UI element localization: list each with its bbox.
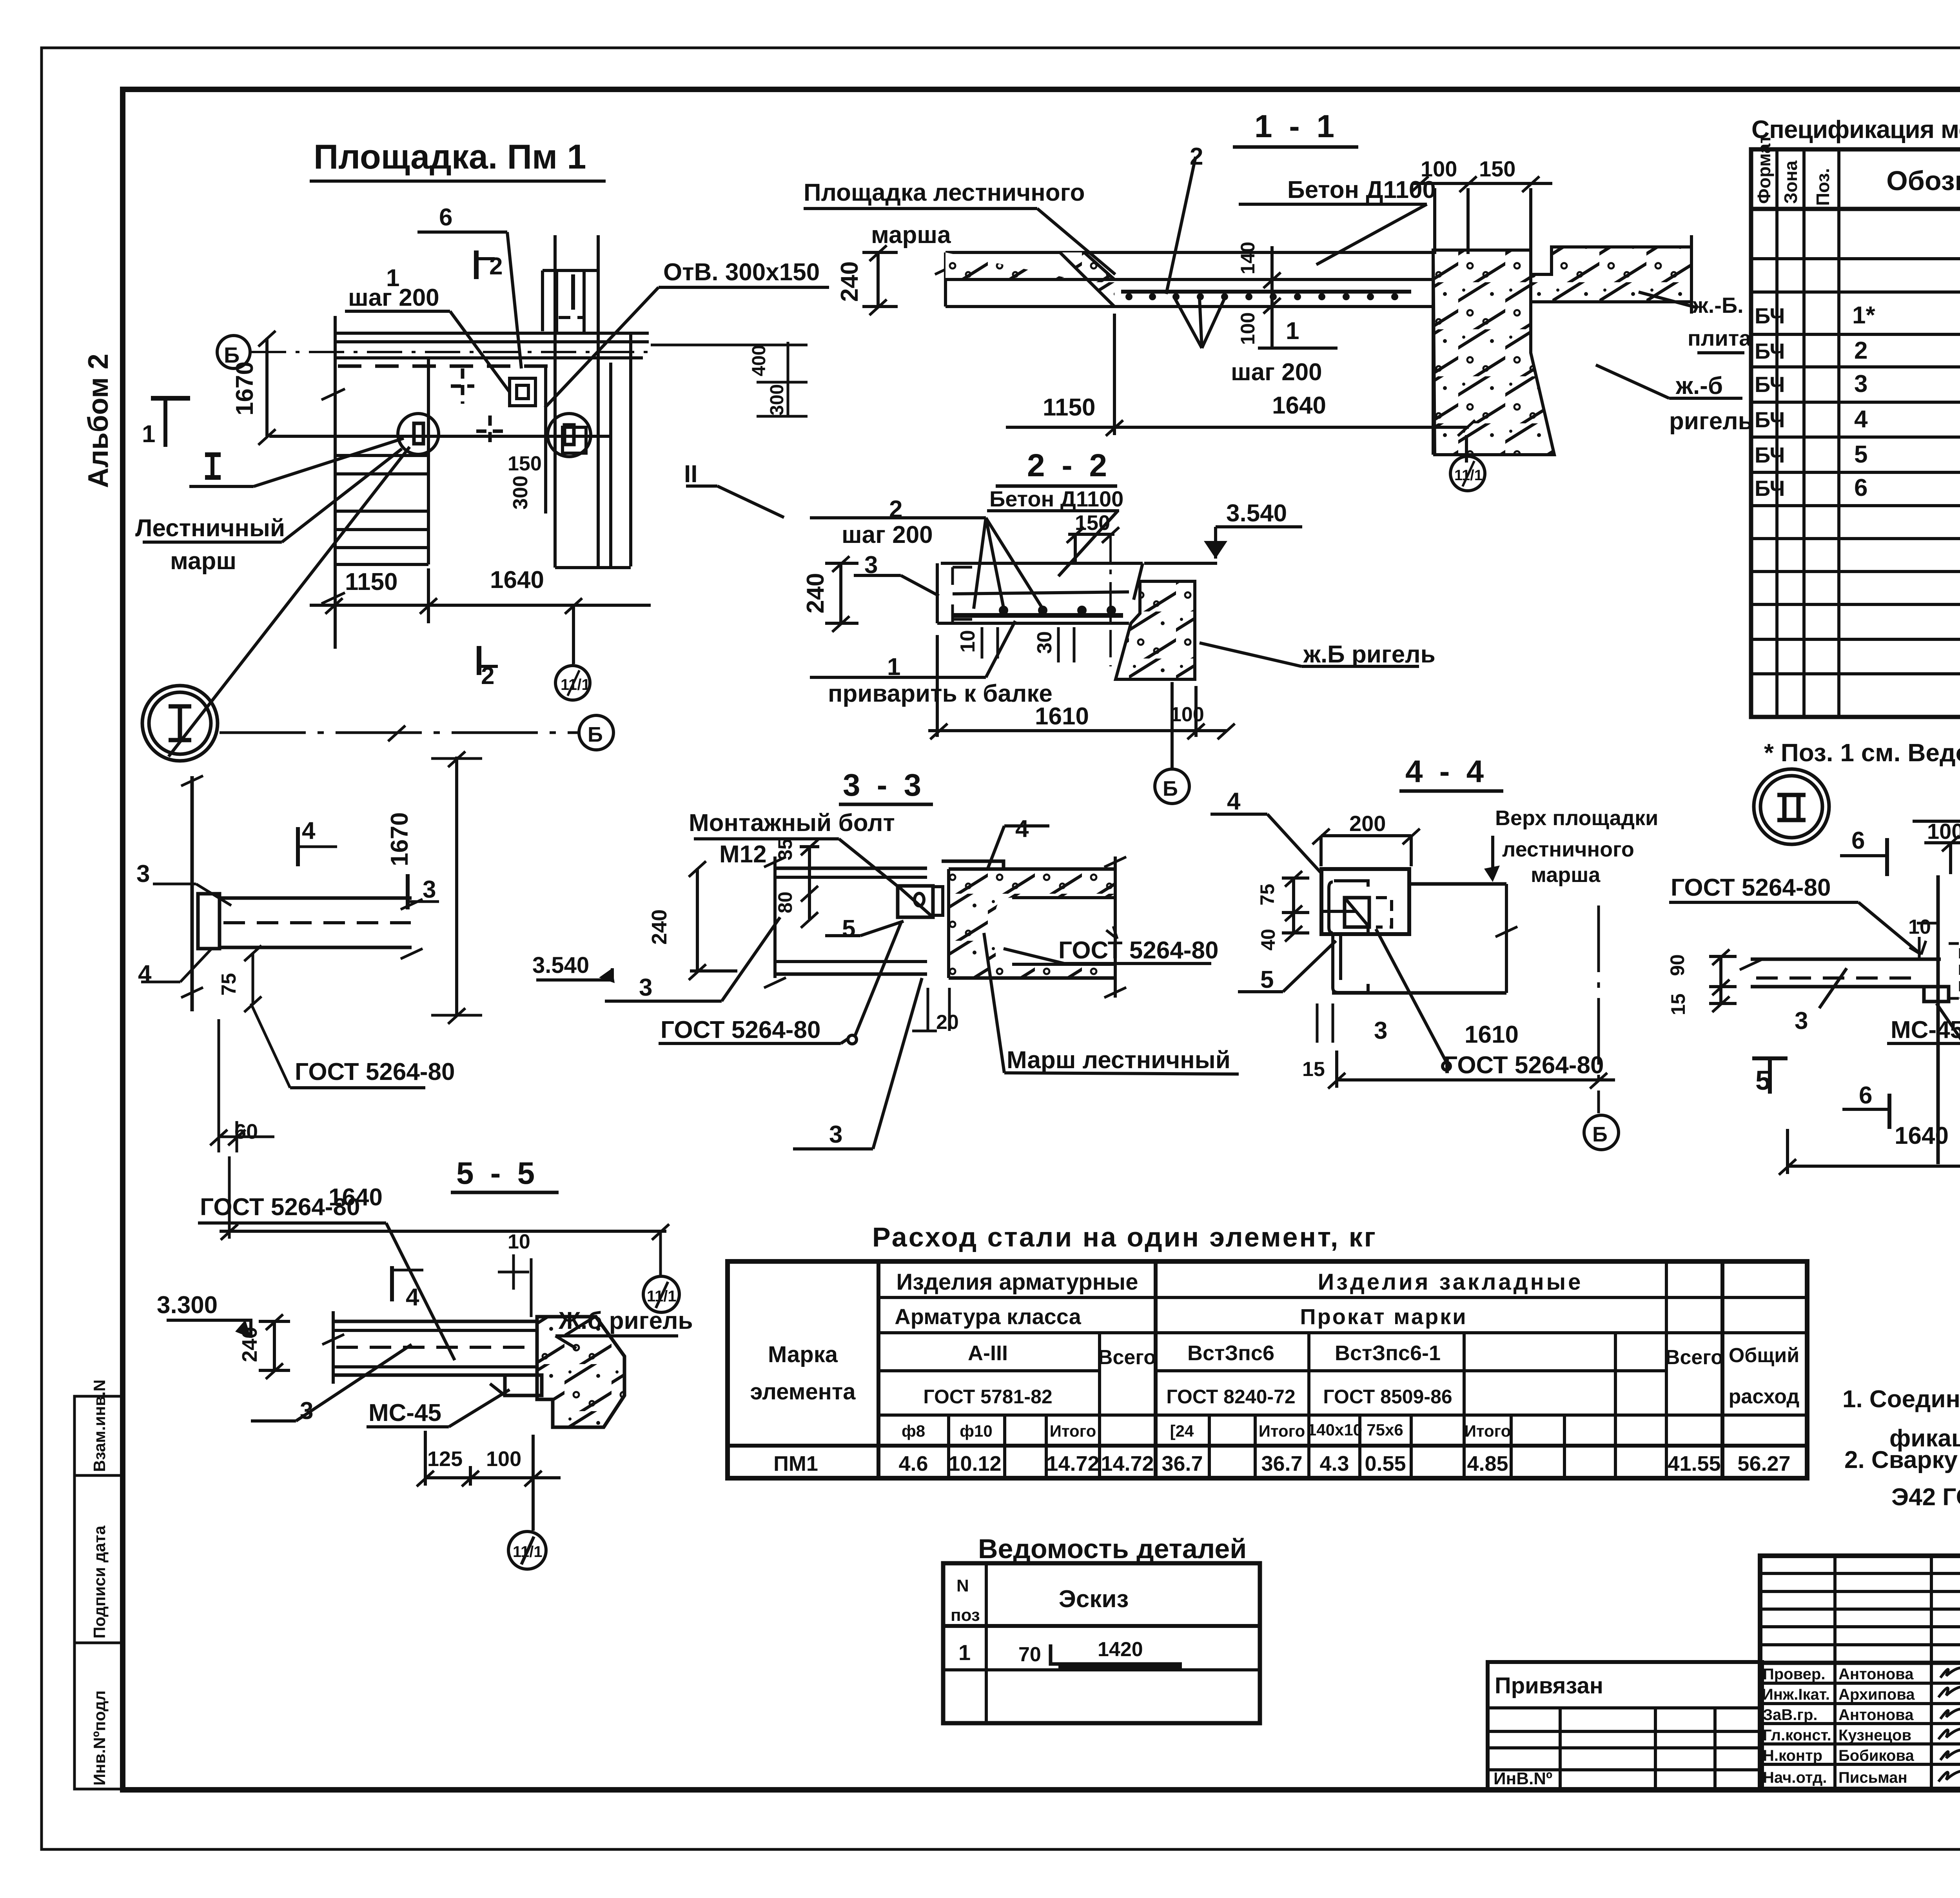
weld circle left	[398, 414, 439, 454]
11/1 circle	[643, 1276, 679, 1312]
svg-text:3: 3	[1854, 370, 1867, 397]
3.540 mark	[1216, 525, 1302, 528]
svg-text:2: 2	[489, 253, 503, 280]
15 dim	[1316, 1003, 1319, 1043]
svg-text:Письман: Письман	[1838, 1769, 1907, 1786]
svg-text:ГОСТ 8240-72: ГОСТ 8240-72	[1166, 1386, 1295, 1408]
right side dims 400/300 ticks	[651, 342, 808, 417]
svg-text:поз: поз	[951, 1606, 980, 1625]
3 leader	[251, 1419, 296, 1423]
svg-text:Бетон Д1100: Бетон Д1100	[989, 486, 1123, 511]
floor plate right	[1531, 247, 1691, 302]
svg-text:240: 240	[648, 909, 671, 945]
slab outline	[946, 251, 1433, 254]
svg-text:Всего: Всего	[1665, 1346, 1723, 1369]
60 dim	[220, 1136, 274, 1138]
flag 4 top	[298, 846, 337, 848]
svg-text:11/1: 11/1	[647, 1288, 677, 1305]
svg-text:300: 300	[509, 475, 532, 510]
svg-text:ПМ1: ПМ1	[773, 1452, 818, 1475]
svg-text:А-III: А-III	[968, 1341, 1008, 1365]
3 leader	[1819, 968, 1847, 1008]
4 label leader	[1004, 824, 1049, 827]
svg-text:4.85: 4.85	[1467, 1452, 1508, 1475]
rebar dots	[1125, 293, 1398, 300]
svg-text:1 - 1: 1 - 1	[1254, 109, 1338, 144]
svg-text:100: 100	[1421, 156, 1457, 181]
90/15 dims left	[1719, 956, 1722, 1003]
svg-text:200: 200	[1349, 811, 1386, 836]
svg-text:Инв.Nºподл: Инв.Nºподл	[90, 1690, 109, 1785]
section 3-3	[659, 768, 1239, 1149]
svg-text:Изделия закладные: Изделия закладные	[1318, 1269, 1583, 1295]
svg-text:1640: 1640	[1272, 392, 1326, 419]
svg-text:Б: Б	[588, 723, 603, 746]
svg-text:Нач.отд.: Нач.отд.	[1763, 1769, 1827, 1786]
riegel block	[537, 1317, 624, 1427]
закладные part verticals	[1208, 1415, 1211, 1478]
riegel block hatched	[1116, 581, 1195, 679]
svg-text:6: 6	[1859, 1082, 1872, 1109]
3-3 left dims (3.540 / 240)	[532, 861, 780, 1001]
ж.б ригель label	[1200, 643, 1419, 666]
svg-text:Обозначение: Обозначение	[1886, 165, 1960, 196]
svg-text:II: II	[684, 461, 697, 488]
dim 1670	[455, 757, 458, 1015]
svg-text:3.300: 3.300	[157, 1292, 218, 1319]
svg-text:10.12: 10.12	[948, 1452, 1001, 1475]
svg-text:1: 1	[958, 1640, 971, 1665]
hatched left band (marsh slab)	[946, 252, 1114, 307]
concrete surface slant	[1134, 563, 1143, 600]
svg-text:* Поз. 1 см. Ведомость детале: * Поз. 1 см. Ведомость деталей	[1764, 739, 1960, 767]
марш slab	[949, 869, 1115, 978]
svg-text:30: 30	[1033, 631, 1056, 654]
svg-text:марша: марша	[871, 221, 951, 249]
svg-text:М12: М12	[719, 841, 767, 868]
svg-text:плита: плита	[1688, 326, 1751, 350]
svg-text:1. Соединительный элемент МС-4: 1. Соединительный элемент МС-45см. специ…	[1842, 1386, 1960, 1413]
svg-text:Прокат марки: Прокат марки	[1300, 1304, 1467, 1329]
верх площадки level line	[1409, 882, 1506, 886]
II mark right	[686, 484, 717, 488]
svg-text:Расход стали на один элемент: Расход стали на один элемент, кг	[872, 1222, 1377, 1252]
bolt block	[898, 886, 933, 917]
svg-text:150: 150	[1479, 156, 1515, 181]
svg-text:41.55: 41.55	[1668, 1452, 1720, 1475]
svg-text:Взам.инв.N: Взам.инв.N	[90, 1379, 109, 1472]
svg-text:БЧ: БЧ	[1755, 407, 1785, 432]
svg-text:Верх площадки: Верх площадки	[1495, 806, 1658, 830]
slab top edge lines	[336, 332, 649, 335]
dim 200	[1321, 834, 1411, 837]
svg-text:Б: Б	[1163, 777, 1178, 800]
section 2-2	[802, 448, 1436, 804]
svg-text:Поз.: Поз.	[1813, 168, 1833, 206]
svg-text:БЧ: БЧ	[1755, 303, 1785, 328]
svg-text:ВстЗпс6-1: ВстЗпс6-1	[1335, 1341, 1441, 1365]
svg-text:ГОСТ 5264-80: ГОСТ 5264-80	[1058, 937, 1218, 964]
svg-text:Привязан: Привязан	[1495, 1673, 1603, 1698]
dim 1610 / 100	[928, 729, 1227, 732]
Ж.б ригель leader	[555, 1334, 678, 1337]
dim 240	[696, 868, 699, 972]
10 dim	[1918, 937, 1921, 959]
svg-text:75: 75	[1256, 884, 1278, 905]
ГОСТ underline + leader	[198, 1221, 386, 1225]
svg-text:Марка: Марка	[768, 1342, 838, 1367]
svg-text:лестничного: лестничного	[1502, 838, 1634, 861]
leader from I circle to weld	[169, 447, 410, 757]
svg-text:100: 100	[486, 1447, 521, 1471]
svg-text:Бобикова: Бобикова	[1838, 1747, 1914, 1764]
svg-text:марш: марш	[170, 548, 236, 575]
svg-text:3.540: 3.540	[532, 953, 589, 978]
svg-text:ф8: ф8	[902, 1422, 925, 1440]
svg-text:ж.-б: ж.-б	[1675, 372, 1723, 399]
channel piece	[198, 894, 220, 949]
svg-text:70: 70	[1018, 1643, 1041, 1666]
svg-text:Общий: Общий	[1729, 1344, 1799, 1367]
dim 1670 vertical	[265, 338, 269, 436]
axis dash-dot to Б	[220, 731, 578, 734]
beam lines	[333, 1320, 537, 1323]
plan view Пм1	[143, 232, 829, 757]
top column I-beam	[543, 269, 598, 272]
labels leaders	[810, 516, 986, 519]
section cut 1 left: T mark	[151, 396, 190, 401]
axis Б dash-dot	[251, 351, 651, 353]
ГОСТ label underline + leader	[1669, 901, 1858, 904]
lower ГОСТ underline	[659, 1042, 841, 1045]
svg-text:2: 2	[1854, 337, 1867, 364]
svg-text:2: 2	[481, 662, 494, 690]
svg-text:Арматура класса: Арматура класса	[895, 1304, 1081, 1329]
svg-text:БЧ: БЧ	[1755, 339, 1785, 363]
svg-text:3: 3	[864, 552, 878, 579]
20 dim below	[927, 988, 929, 1031]
3 label	[605, 1000, 722, 1003]
svg-text:14.72: 14.72	[1101, 1452, 1154, 1475]
svg-text:80: 80	[774, 891, 796, 913]
svg-text:1610: 1610	[1465, 1021, 1519, 1048]
outer column splits	[877, 1261, 880, 1478]
svg-text:2. Сварку производить электрод: 2. Сварку производить электродами типа	[1844, 1446, 1960, 1473]
channel web continuation down	[1331, 934, 1334, 988]
title block	[1488, 1556, 1960, 1789]
svg-text:Всего: Всего	[1098, 1346, 1156, 1369]
svg-text:Изделия арматурные: Изделия арматурные	[897, 1269, 1138, 1295]
inner bolt rect	[1345, 898, 1369, 927]
svg-text:11/1: 11/1	[513, 1543, 543, 1560]
4 label	[1210, 813, 1267, 816]
dims 75/40 at left	[1292, 878, 1295, 933]
flag 4 bottom	[390, 1266, 394, 1301]
dims 125/100	[425, 1476, 561, 1479]
svg-text:4 - 4: 4 - 4	[1405, 754, 1488, 789]
svg-text:1: 1	[887, 653, 900, 680]
end plate МС-45	[1924, 987, 1949, 1002]
svg-text:5: 5	[842, 915, 855, 942]
left grid verticals	[1833, 1556, 1837, 1789]
svg-text:10: 10	[1908, 916, 1931, 938]
line down to 11/1 circle	[1465, 455, 1468, 457]
svg-text:БЧ: БЧ	[1755, 443, 1785, 467]
dim 240	[839, 563, 842, 623]
svg-text:100: 100	[1927, 819, 1960, 844]
svg-text:ВстЗпс6: ВстЗпс6	[1187, 1341, 1274, 1365]
row lines	[1751, 257, 1960, 260]
svg-text:10: 10	[956, 630, 979, 653]
svg-text:Провер.: Провер.	[1763, 1666, 1825, 1683]
left edge	[334, 316, 337, 649]
svg-text:11/1: 11/1	[561, 676, 590, 693]
svg-text:ГОСТ 5264-80: ГОСТ 5264-80	[200, 1194, 360, 1221]
svg-text:240: 240	[836, 261, 863, 302]
svg-text:1150: 1150	[1043, 394, 1096, 421]
6 flag top	[1840, 854, 1887, 857]
svg-text:ОтВ. 300х150: ОтВ. 300х150	[663, 259, 820, 286]
svg-text:Площадка лестничного: Площадка лестничного	[804, 179, 1085, 206]
svg-text:марша: марша	[1531, 863, 1601, 887]
svg-text:МС-45: МС-45	[1891, 1016, 1960, 1043]
svg-text:ГОСТ 5264-80: ГОСТ 5264-80	[1444, 1052, 1604, 1079]
шаг 200 fan	[1175, 298, 1202, 348]
svg-text:ф10: ф10	[960, 1422, 992, 1440]
signatures squiggles	[1938, 1668, 1960, 1784]
section cut 1 in plan right	[571, 274, 575, 310]
beam top flange lines	[775, 867, 927, 870]
left strip cells	[74, 1396, 123, 1789]
svg-text:35: 35	[774, 838, 796, 860]
flag 3 right	[406, 874, 410, 909]
dim 240 left	[877, 252, 880, 307]
svg-text:[24: [24	[1170, 1422, 1194, 1440]
svg-text:5: 5	[1755, 1065, 1771, 1096]
svg-text:расход: расход	[1729, 1385, 1800, 1408]
svg-text:шаг 200: шаг 200	[1231, 359, 1322, 386]
svg-text:Монтажный болт: Монтажный болт	[689, 809, 895, 836]
svg-text:ГОСТ 5264-80: ГОСТ 5264-80	[661, 1016, 820, 1043]
svg-text:5: 5	[1260, 966, 1274, 993]
240 dim	[273, 1321, 276, 1370]
svg-text:ГОСТ 5264-80: ГОСТ 5264-80	[1671, 874, 1831, 901]
svg-text:15: 15	[1667, 993, 1689, 1015]
label 4 lower leader	[141, 981, 180, 983]
bottom flange	[775, 960, 927, 963]
svg-text:1*: 1*	[1852, 302, 1875, 329]
left grid rows	[1760, 1572, 1960, 1575]
svg-text:шаг 200: шаг 200	[348, 284, 439, 311]
svg-text:ригель: ригель	[1669, 408, 1753, 435]
svg-text:4: 4	[1227, 788, 1241, 815]
5 to lower gost leader	[855, 921, 902, 1037]
dims 100 150	[1924, 841, 1960, 844]
dim 1640	[1788, 1165, 1960, 1168]
svg-text:1640: 1640	[490, 566, 544, 593]
svg-text:75х6: 75х6	[1367, 1421, 1403, 1439]
3.300 corner	[167, 1320, 251, 1338]
Марш лестничный leader/underline	[984, 933, 1004, 1073]
vertical member	[191, 776, 194, 1011]
svg-text:240: 240	[802, 573, 829, 613]
ГОСТ leader	[1443, 1062, 1450, 1070]
11/1	[508, 1531, 546, 1569]
inner verticals arm	[947, 1415, 950, 1478]
svg-text:240: 240	[238, 1327, 261, 1362]
3 underline	[793, 1147, 873, 1150]
small angle details dashes	[451, 368, 474, 404]
svg-text:3: 3	[1374, 1017, 1387, 1044]
section 4-4	[1210, 754, 1658, 1150]
svg-text:Итого: Итого	[1465, 1422, 1511, 1440]
10 dim	[512, 1254, 515, 1290]
svg-text:4.3: 4.3	[1319, 1452, 1349, 1475]
dim 150 top	[1068, 533, 1114, 536]
svg-text:1610: 1610	[1035, 703, 1089, 730]
leaders	[1166, 157, 1196, 294]
svg-text:ЗаВ.гр.: ЗаВ.гр.	[1763, 1706, 1818, 1724]
svg-text:Подписи дата: Подписи дата	[90, 1525, 109, 1639]
svg-text:2: 2	[889, 496, 902, 523]
svg-text:Антонова: Антонова	[1838, 1666, 1914, 1683]
svg-text:Итого: Итого	[1050, 1422, 1096, 1440]
svg-text:Н.контр: Н.контр	[1763, 1747, 1822, 1764]
svg-text:60: 60	[234, 1120, 258, 1143]
leader lines	[417, 230, 507, 234]
svg-text:100: 100	[1170, 703, 1204, 726]
svg-text:шаг 200: шаг 200	[842, 521, 933, 548]
dim line bottom 1150/1640	[310, 604, 651, 607]
svg-text:1420: 1420	[1098, 1638, 1143, 1661]
"5" leader	[825, 934, 860, 937]
beam lines	[220, 896, 412, 900]
svg-text:3 - 3: 3 - 3	[843, 768, 925, 802]
svg-text:40: 40	[1257, 929, 1279, 951]
svg-text:ИнВ.Nº: ИнВ.Nº	[1494, 1769, 1552, 1788]
svg-text:4: 4	[302, 817, 316, 844]
detail mark I	[205, 452, 221, 457]
svg-text:приварить к балке: приварить к балке	[828, 680, 1053, 707]
svg-text:6: 6	[1851, 827, 1865, 854]
svg-text:10: 10	[508, 1230, 530, 1253]
svg-text:Гл.конст.: Гл.конст.	[1763, 1727, 1831, 1744]
channel profile	[1321, 869, 1409, 934]
stair flight lines	[336, 454, 428, 457]
label 3 left leader	[153, 883, 196, 885]
dashed slab inner line	[338, 365, 549, 368]
svg-text:140х10: 140х10	[1307, 1421, 1362, 1439]
section cut 2 top	[474, 250, 479, 279]
right side verticals (beam / channel)	[544, 365, 547, 514]
steel consumption table	[728, 1222, 1807, 1478]
5 leader	[1238, 990, 1283, 993]
axis down to Б	[1597, 905, 1600, 1113]
dim 1610	[1337, 1078, 1615, 1081]
svg-text:БЧ: БЧ	[1755, 372, 1785, 397]
svg-text:1670: 1670	[386, 812, 413, 866]
svg-text:75: 75	[218, 973, 240, 996]
svg-text:Площадка. Пм 1: Площадка. Пм 1	[314, 137, 586, 176]
svg-text:1640: 1640	[1895, 1122, 1949, 1149]
svg-text:4: 4	[1854, 406, 1868, 433]
svg-text:4: 4	[1015, 815, 1029, 842]
svg-text:150: 150	[508, 452, 542, 475]
svg-text:Антонова: Антонова	[1838, 1706, 1914, 1724]
top long line	[1913, 820, 1960, 823]
right leaders	[1639, 292, 1697, 308]
svg-text:1: 1	[1286, 318, 1299, 345]
main block outer	[1760, 1556, 1960, 1789]
svg-text:300: 300	[767, 384, 788, 416]
axis to Б circle	[1171, 682, 1174, 768]
dim 35 / 80	[808, 847, 811, 919]
detail II	[1666, 769, 1960, 1241]
svg-text:Эскиз: Эскиз	[1059, 1586, 1129, 1613]
svg-text:14.72: 14.72	[1046, 1452, 1099, 1475]
top lip channel piece	[942, 861, 1004, 870]
svg-text:ГОСТ 8509-86: ГОСТ 8509-86	[1323, 1386, 1452, 1408]
Монтажный болт underline/leader	[694, 837, 839, 840]
svg-text:элемента: элемента	[750, 1379, 856, 1404]
plan 11/1 circle	[555, 666, 590, 700]
verticals	[1775, 149, 1779, 717]
МС-45 plate	[505, 1375, 542, 1395]
svg-text:1670: 1670	[231, 361, 258, 416]
section 1-1	[804, 109, 1753, 491]
svg-text:N: N	[956, 1576, 969, 1595]
svg-text:2 - 2: 2 - 2	[1027, 448, 1111, 483]
svg-text:Кузнецов: Кузнецов	[1838, 1727, 1911, 1744]
svg-text:3.540: 3.540	[1226, 500, 1287, 527]
inner room rectangle	[427, 358, 430, 564]
svg-text:4: 4	[138, 960, 152, 987]
svg-text:6: 6	[439, 204, 452, 231]
svg-text:3: 3	[639, 974, 652, 1001]
svg-text:90: 90	[1666, 954, 1688, 976]
svg-text:400: 400	[749, 345, 769, 376]
svg-text:Архипова: Архипова	[1838, 1686, 1915, 1703]
svg-text:5: 5	[1854, 441, 1867, 468]
svg-text:3: 3	[423, 876, 436, 903]
svg-text:2: 2	[1190, 143, 1203, 170]
svg-text:1150: 1150	[345, 568, 398, 595]
svg-text:Лестничный: Лестничный	[135, 515, 285, 542]
svg-text:36.7: 36.7	[1161, 1452, 1203, 1475]
svg-text:3: 3	[1795, 1007, 1808, 1034]
МС-45 underline + leader	[1887, 1042, 1960, 1045]
svg-text:100: 100	[1237, 312, 1259, 345]
svg-text:ГОСТ 5264-80: ГОСТ 5264-80	[295, 1058, 455, 1085]
opening small squares	[510, 378, 535, 406]
svg-text:Зона: Зона	[1780, 160, 1801, 204]
section cut 2 bottom	[477, 646, 481, 675]
75 dim	[252, 953, 254, 1003]
slab body	[1505, 884, 1508, 993]
svg-text:Ведомость деталей: Ведомость деталей	[978, 1533, 1247, 1564]
privyazan table	[1488, 1662, 1762, 1789]
svg-text:ж.-Б.: ж.-Б.	[1692, 293, 1744, 318]
svg-text:Э42 ГОСТ 9467-75.: Э42 ГОСТ 9467-75.	[1891, 1484, 1960, 1511]
svg-text:3: 3	[829, 1121, 842, 1148]
svg-text:Альбом 2: Альбом 2	[83, 354, 114, 488]
svg-text:Спецификация монолитной ж-б. л: Спецификация монолитной ж-б. лестничной …	[1751, 115, 1960, 143]
svg-text:11/1: 11/1	[1454, 467, 1483, 484]
svg-text:БЧ: БЧ	[1755, 476, 1785, 501]
svg-text:20: 20	[936, 1011, 959, 1034]
section 5-5	[157, 1156, 693, 1569]
svg-text:0.55: 0.55	[1365, 1452, 1406, 1475]
